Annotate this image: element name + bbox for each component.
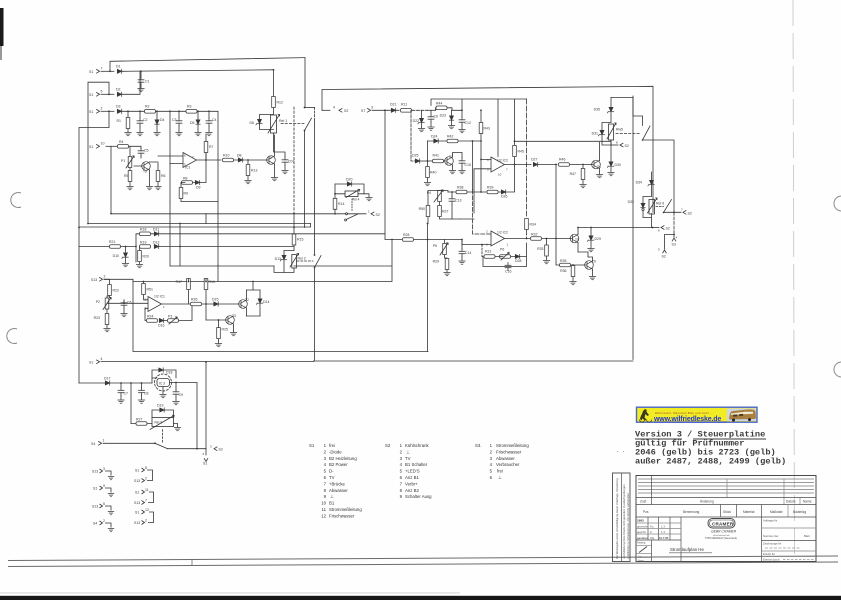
connector stub S13.3: [92, 467, 114, 480]
svg-text:C9: C9: [179, 393, 184, 397]
svg-text:R18: R18: [140, 228, 146, 232]
resistor R14: [333, 198, 337, 209]
wire: [106, 145, 117, 147]
banner van: [729, 409, 756, 419]
svg-text:D16: D16: [158, 324, 164, 328]
svg-text:R45: R45: [518, 150, 524, 154]
svg-text:⊥: ⊥: [498, 475, 502, 480]
svg-text:R33: R33: [537, 247, 543, 251]
title block zust row: [636, 497, 816, 499]
svg-text:C4: C4: [212, 118, 217, 122]
svg-text:D25: D25: [412, 154, 418, 158]
wire bus A: [111, 146, 346, 214]
svg-text:R26: R26: [191, 298, 197, 302]
connector S1 pin6 stub: [205, 449, 207, 455]
svg-text:Z.: Z.: [650, 530, 653, 534]
svg-text:P4: P4: [427, 191, 431, 195]
svg-text:Ersetzt durch: Ersetzt durch: [763, 558, 780, 562]
capacitor C2: [137, 118, 143, 126]
svg-text:S1: S1: [309, 443, 315, 448]
svg-text:D29: D29: [595, 237, 601, 241]
svg-text:R43: R43: [484, 127, 490, 131]
svg-text:7: 7: [145, 499, 147, 503]
svg-text:Rel 6: Rel 6: [656, 202, 664, 206]
resistor R40: [427, 141, 429, 166]
switch K6: [664, 200, 672, 213]
svg-text:3: 3: [400, 456, 403, 461]
resistor R51: [142, 284, 146, 295]
svg-text:S13: S13: [92, 470, 98, 474]
svg-text:TV: TV: [329, 475, 335, 480]
svg-text:2: 2: [103, 519, 105, 523]
svg-text:Rel 2: Rel 2: [298, 257, 306, 261]
svg-text:gesehen: gesehen: [637, 536, 649, 540]
resistor R37: [438, 206, 442, 217]
dashed link Rel2: [297, 260, 313, 262]
wire relay out: [174, 424, 178, 428]
svg-text:Benennung: Benennung: [683, 510, 700, 514]
wire IC2a output: [505, 164, 531, 166]
svg-text:1: 1: [163, 305, 165, 309]
svg-text:1: 1: [103, 439, 105, 443]
wire bus C terminal: [652, 227, 654, 229]
wire to S2: [168, 448, 207, 450]
svg-text:P2: P2: [96, 300, 100, 304]
svg-text:C8: C8: [144, 392, 149, 396]
svg-text:S2: S2: [666, 227, 670, 231]
svg-text:Kühlschrank: Kühlschrank: [405, 443, 429, 448]
svg-text:4: 4: [676, 236, 678, 240]
wire: [468, 191, 487, 193]
rail to Rw5: [515, 141, 612, 161]
svg-text:R39: R39: [487, 186, 493, 190]
svg-text:R1: R1: [117, 119, 122, 123]
wire IC2a inputs: [474, 160, 491, 214]
svg-text:C15: C15: [465, 163, 471, 167]
svg-text:T4: T4: [597, 165, 601, 169]
svg-text:D11: D11: [153, 228, 159, 232]
svg-text:C6: C6: [127, 301, 132, 305]
wire: [101, 110, 114, 112]
IC3 module: [155, 374, 172, 391]
svg-text:TV: TV: [405, 456, 411, 461]
transistor T3: [225, 316, 234, 325]
wire switch drops: [305, 58, 315, 361]
svg-text:. .: . .: [616, 448, 625, 454]
wire: [542, 238, 570, 240]
svg-text:C12: C12: [465, 121, 471, 125]
svg-text:S2: S2: [385, 443, 391, 448]
wire box bottom edge: [101, 96, 633, 362]
svg-text:S13: S13: [91, 278, 97, 282]
svg-text:8: 8: [616, 141, 618, 145]
switch K2: [315, 256, 322, 268]
svg-text:1: 1: [368, 210, 370, 214]
svg-text:6: 6: [400, 475, 403, 480]
wire: [131, 423, 152, 425]
wire loop: [483, 243, 527, 267]
dashed relay link Rel3: [162, 430, 164, 444]
wire switch out: [643, 140, 675, 212]
svg-text:S2: S2: [219, 448, 223, 452]
wire: [538, 164, 557, 166]
wire box verticals: [133, 214, 392, 282]
svg-text:S1: S1: [89, 361, 93, 365]
svg-text:10: 10: [321, 501, 326, 506]
wire dash-dot: [396, 109, 428, 111]
resistor R13: [246, 165, 250, 176]
svg-text:4: 4: [101, 357, 103, 361]
wire: [101, 93, 114, 95]
wire pin3 rail: [385, 110, 462, 239]
svg-text:6: 6: [324, 475, 327, 480]
wire: [104, 279, 110, 285]
title block lower-left slash cell: [636, 545, 652, 547]
resistor R47: [581, 169, 585, 180]
left feed vertical wires: [79, 82, 109, 383]
svg-text:Abwasser: Abwasser: [329, 488, 348, 493]
svg-text:5: 5: [658, 248, 660, 252]
node dots on rail: [127, 110, 210, 112]
svg-text:Rel 1: Rel 1: [279, 119, 287, 123]
resistor R43: [479, 123, 483, 134]
svg-text:6: 6: [658, 229, 660, 233]
svg-text:R27: R27: [136, 418, 142, 422]
svg-text:R34: R34: [530, 223, 536, 227]
relay Rel4: [345, 191, 358, 197]
resistor R36: [571, 266, 575, 277]
switch K4: [346, 213, 348, 215]
diode D16: [159, 318, 163, 322]
svg-text:D20: D20: [346, 178, 352, 182]
svg-text:Name: Name: [638, 560, 645, 562]
svg-text:Bauteilzg: Bauteilzg: [793, 510, 806, 514]
svg-text:Die Weitergabe sowie Vervielfä: Die Weitergabe sowie Vervielfältigung di…: [615, 478, 619, 559]
svg-text:1: 1: [324, 443, 327, 448]
connector pair S1.12 S13.2: [134, 508, 154, 525]
svg-text:D9: D9: [196, 186, 201, 190]
wire P4 loop: [428, 191, 448, 206]
svg-text:7: 7: [101, 67, 103, 71]
svg-text:C2: C2: [143, 118, 148, 122]
svg-text:Datum: Datum: [786, 500, 796, 504]
wire bus T5: [578, 227, 653, 229]
svg-text:Blatt: Blatt: [804, 534, 810, 538]
svg-text:S13: S13: [134, 521, 140, 525]
connector stub S1.9: [93, 484, 114, 497]
svg-text:geprüft: geprüft: [637, 530, 646, 534]
svg-text:B2 Power: B2 Power: [329, 462, 348, 467]
capacitor C3: [176, 118, 182, 126]
svg-text:R17: R17: [176, 280, 182, 284]
svg-text:5: 5: [324, 469, 327, 474]
svg-text:+Brücke: +Brücke: [329, 481, 345, 486]
svg-text:B1 Schalter: B1 Schalter: [405, 462, 428, 467]
svg-text:3: 3: [371, 106, 373, 110]
svg-text:Anz B2: Anz B2: [405, 488, 419, 493]
dashed link Rel6 switch: [656, 206, 664, 208]
transistor T5: [570, 234, 579, 243]
svg-text:Rw5: Rw5: [616, 128, 623, 132]
svg-text:B2 Heizleitung: B2 Heizleitung: [329, 456, 357, 461]
wire D19 loop: [152, 410, 174, 418]
svg-text:D21: D21: [390, 103, 396, 107]
wire: [159, 246, 180, 248]
relay Rel6 coil: [649, 200, 655, 215]
svg-text:P5: P5: [433, 244, 437, 248]
svg-text:S4: S4: [91, 442, 95, 446]
svg-text:1.3: 1.3: [661, 525, 665, 529]
svg-text:S2: S2: [688, 211, 692, 215]
svg-text:B1: B1: [329, 501, 335, 506]
svg-text:D1: D1: [116, 65, 121, 69]
svg-text:D3: D3: [116, 105, 121, 109]
svg-text:Ko.: Ko.: [650, 525, 654, 529]
wire IC3 drop: [205, 362, 207, 449]
svg-text:4: 4: [324, 462, 327, 467]
title block revision ledger lines: [638, 478, 814, 480]
svg-text:1: 1: [490, 443, 493, 448]
svg-text:4: 4: [490, 462, 493, 467]
svg-text:2: 2: [324, 449, 327, 454]
capacitor C9: [175, 387, 177, 390]
dashed relay link Rel4: [351, 199, 353, 212]
svg-text:R2: R2: [145, 105, 150, 109]
wire: [499, 165, 515, 193]
web banner box: [637, 407, 758, 422]
svg-text:Pos: Pos: [643, 510, 649, 514]
svg-text:D26: D26: [501, 195, 507, 199]
svg-text:Rel 3: Rel 3: [155, 421, 163, 425]
svg-text:Nummer der: Nummer der: [763, 534, 779, 538]
svg-text:S2: S2: [376, 213, 380, 217]
svg-text:5: 5: [490, 469, 493, 474]
svg-text:S2: S2: [344, 109, 348, 113]
svg-text:1983: 1983: [637, 519, 644, 523]
svg-text:S1: S1: [135, 469, 139, 473]
svg-text:5760 MENDEN (Sauerland): 5760 MENDEN (Sauerland): [705, 536, 737, 540]
svg-text:D14: D14: [263, 300, 269, 304]
capacitor C1: [138, 77, 144, 85]
wire: [101, 70, 114, 72]
svg-text:Wg.: Wg.: [650, 536, 655, 540]
svg-text:5: 5: [101, 90, 103, 94]
svg-text:12: 12: [321, 513, 326, 518]
wire pin2 feed: [473, 190, 492, 234]
svg-text:R24: R24: [147, 315, 153, 319]
wire IC3 output right: [176, 383, 197, 449]
svg-text:Material: Material: [743, 510, 755, 514]
resistor R45: [513, 146, 517, 157]
wire pin3: [462, 240, 491, 245]
connector stub S4.2: [93, 519, 114, 532]
svg-text:2: 2: [145, 519, 147, 523]
diode D28: [515, 254, 519, 258]
resistor R9: [179, 188, 183, 199]
svg-text:1: 1: [400, 443, 403, 448]
switch K5: [643, 126, 651, 140]
svg-text:5: 5: [487, 168, 489, 172]
svg-text:P6: P6: [500, 248, 504, 252]
svg-text:frei: frei: [329, 443, 335, 448]
svg-text:D34: D34: [636, 181, 642, 185]
wire: [234, 159, 266, 161]
resistor R17: [187, 279, 191, 290]
resistor R25: [217, 328, 221, 339]
wire T2 T3 collectors up: [247, 282, 261, 291]
wire feedback drop: [482, 245, 483, 257]
svg-text:R25: R25: [222, 328, 228, 332]
wire top feeder rails: [431, 99, 527, 157]
svg-text:Name: Name: [803, 500, 812, 504]
svg-text:verpflichten zu Schadenersatz.: verpflichten zu Schadenersatz. Alle Rech…: [626, 492, 630, 559]
svg-text:S1: S1: [203, 462, 207, 466]
svg-text:S3.: S3.: [475, 443, 481, 448]
banner figure (person with bike): [640, 410, 649, 420]
svg-text:1/2 IC2: 1/2 IC2: [497, 159, 508, 163]
relay Rel3: [152, 418, 174, 427]
wire IC2b output: [505, 238, 531, 240]
svg-text:IC1: IC1: [185, 166, 190, 170]
svg-text:6: 6: [490, 475, 493, 480]
svg-text:R9: R9: [184, 192, 189, 196]
svg-text:R6: R6: [161, 174, 166, 178]
wire R19 feed to switch: [180, 246, 294, 248]
svg-text:P3: P3: [168, 315, 172, 319]
connector S3 pin4 stub: [673, 212, 675, 234]
resistor R33: [545, 245, 549, 256]
svg-text:S1: S1: [89, 93, 93, 97]
svg-text:9: 9: [400, 494, 403, 499]
svg-text:2: 2: [104, 275, 106, 279]
svg-text:R28: R28: [403, 233, 409, 237]
svg-text:5: 5: [103, 502, 105, 506]
wire: [79, 234, 136, 262]
svg-text:S13: S13: [92, 505, 98, 509]
svg-text:R51: R51: [147, 288, 153, 292]
wire: [428, 140, 482, 142]
wire IC3 ground: [162, 387, 164, 395]
wire op-amp output: [197, 159, 221, 161]
svg-text:11: 11: [322, 507, 327, 512]
capacitor C6: [121, 300, 127, 308]
svg-text:Anz B1: Anz B1: [405, 475, 419, 480]
resistor R20: [138, 251, 142, 262]
svg-text:10: 10: [498, 173, 502, 177]
relay Rel2 coil: [292, 255, 297, 269]
svg-text:3: 3: [210, 445, 212, 449]
svg-text:Stück: Stück: [723, 510, 731, 514]
diode D18: [159, 368, 163, 372]
wire D18 loop: [152, 370, 176, 383]
svg-text:Verbraucher: Verbraucher: [496, 462, 520, 467]
svg-text:D4: D4: [160, 118, 165, 122]
svg-text:R23: R23: [94, 316, 100, 320]
wire: [122, 111, 218, 265]
connector stub S13.5: [92, 502, 114, 515]
svg-text:Frischwasser: Frischwasser: [496, 449, 522, 454]
wire Rel1/D6 loop: [260, 115, 274, 153]
svg-text:außer 2487, 2488, 2499 (gelb): außer 2487, 2488, 2499 (gelb): [635, 457, 786, 467]
svg-text:D30: D30: [615, 163, 621, 167]
svg-text:10.7.85: 10.7.85: [659, 536, 669, 540]
svg-text:D19: D19: [157, 404, 163, 408]
capacitor C4: [206, 118, 212, 126]
svg-text:1.3: 1.3: [661, 530, 665, 534]
svg-text:GEBR CRAMER: GEBR CRAMER: [711, 530, 737, 534]
wire D20 loop: [335, 184, 364, 194]
svg-text:R4: R4: [119, 140, 124, 144]
svg-text:C16: C16: [505, 270, 511, 274]
dashed gang link: [293, 107, 295, 213]
svg-text:Verbr+: Verbr+: [405, 481, 418, 486]
wire Rw5 top hook: [611, 98, 643, 126]
wire switch hook: [305, 107, 315, 109]
svg-text:D8: D8: [237, 154, 242, 158]
resistor R16: [204, 279, 208, 290]
wire: [136, 233, 385, 235]
svg-text:9: 9: [324, 494, 327, 499]
capacitor C7: [282, 157, 288, 165]
svg-text:R15: R15: [297, 238, 303, 242]
wire: [129, 146, 141, 156]
svg-text:⊥: ⊥: [406, 449, 410, 454]
svg-text:frei: frei: [497, 469, 503, 474]
connector pair S1.11 S13.7: [134, 488, 154, 505]
svg-text:CRAMER: CRAMER: [712, 522, 734, 527]
wire D31 loop: [602, 123, 611, 146]
svg-text:11: 11: [145, 488, 149, 492]
svg-text:R40: R40: [430, 171, 436, 175]
sheet frame bottom double line: [8, 556, 838, 561]
svg-text:Maßstab: Maßstab: [770, 510, 783, 514]
op-amp IC1a: [183, 153, 197, 168]
svg-text:2: 2: [101, 107, 103, 111]
svg-text:R46: R46: [559, 158, 565, 162]
svg-text:R38: R38: [457, 186, 463, 190]
dashed relay link Rel1: [281, 123, 304, 125]
svg-text:Änderg: Änderg: [637, 541, 646, 545]
capacitor C15: [459, 158, 465, 166]
svg-text:S4: S4: [93, 522, 97, 526]
transistor T1: [266, 156, 275, 165]
svg-text:gezeichn: gezeichn: [637, 525, 649, 529]
wire: [79, 382, 152, 384]
wire top feed: [372, 109, 391, 111]
svg-text:T5: T5: [575, 238, 579, 242]
svg-text:7: 7: [681, 208, 683, 212]
wire box top edge: [322, 86, 653, 212]
svg-text:D24: D24: [431, 135, 437, 139]
svg-text:8: 8: [324, 488, 327, 493]
svg-text:T2: T2: [245, 298, 249, 302]
hole punch left lower: [7, 329, 17, 344]
op-amp IC2a: [491, 157, 505, 172]
capacitor C14: [459, 249, 465, 257]
svg-text:Ersatz für: Ersatz für: [763, 552, 775, 556]
wire: [570, 165, 591, 170]
svg-text:R19: R19: [140, 241, 146, 245]
svg-text:R12: R12: [277, 101, 283, 105]
feedback diode D9: [195, 180, 199, 184]
dashed link Rw5 switch: [616, 133, 640, 135]
transistor T8: [141, 162, 150, 171]
svg-text:D22: D22: [413, 119, 419, 123]
title block side strip: [613, 473, 631, 562]
wire bus C: [79, 224, 311, 228]
svg-text:R44: R44: [436, 102, 442, 106]
wire dash-dot feed: [411, 110, 415, 161]
